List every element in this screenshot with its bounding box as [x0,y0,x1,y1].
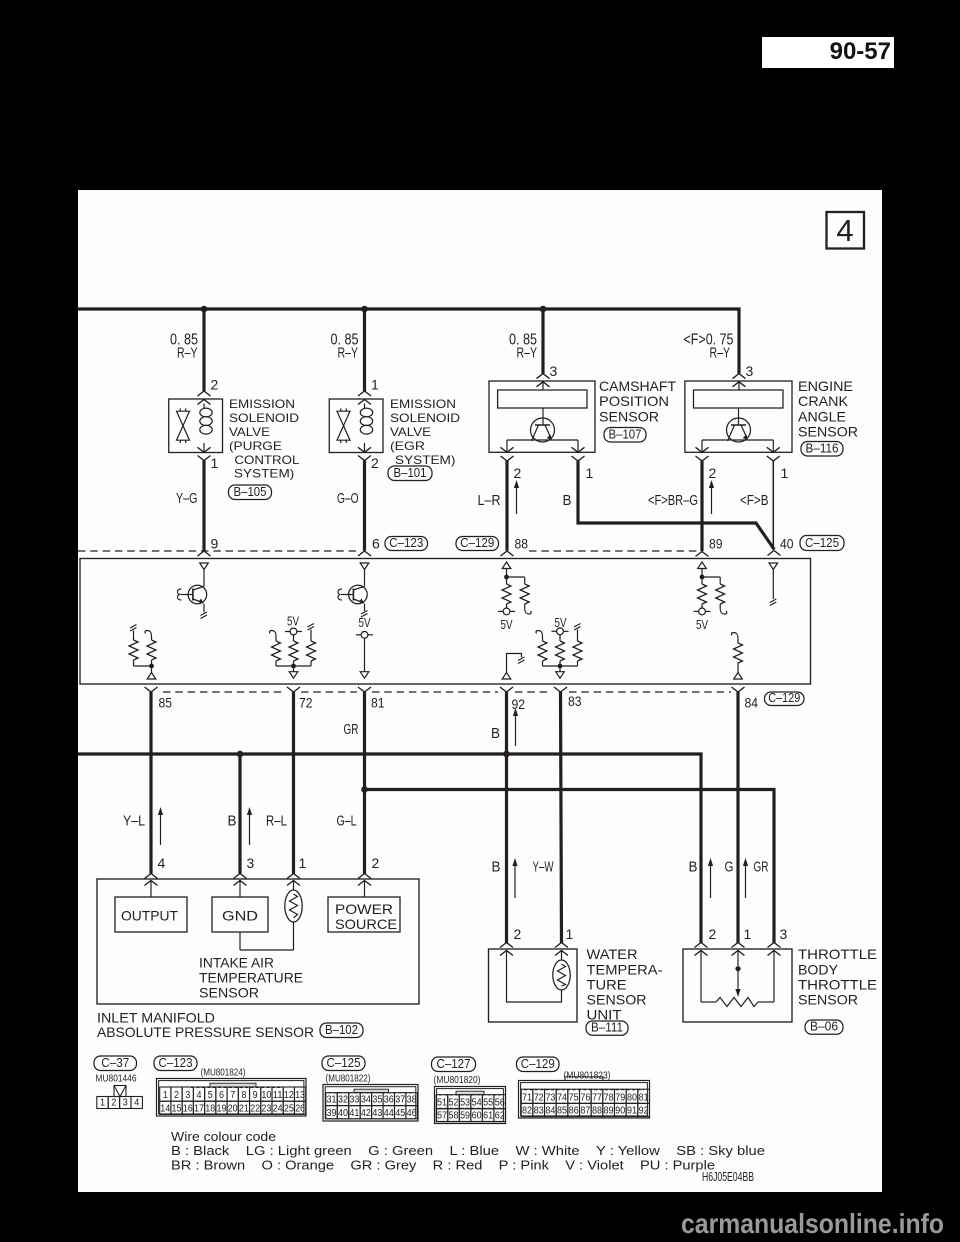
wire pin89 node [701,569,703,578]
svg-text:52: 52 [449,1098,459,1109]
svg-text:(MU801824): (MU801824) [201,1067,246,1078]
wire throttle pot left [700,951,702,1002]
connector C-37 pin row [97,1097,108,1109]
svg-text:EMISSION: EMISSION [229,397,295,411]
ground internal hash Q1 [201,612,208,619]
label box B-116 [801,442,843,457]
svg-text:L–R: L–R [478,492,501,509]
connector chevrons inlet pin 4 [145,874,158,879]
svg-text:SYSTEM): SYSTEM) [395,453,455,467]
arrow signal direction Y-L [160,814,162,845]
svg-text:73: 73 [545,1092,555,1103]
wire group2 bottom bus [543,665,578,667]
svg-text:6: 6 [372,536,380,552]
coil L purge solenoid [203,404,205,409]
svg-text:VALVE: VALVE [229,425,270,439]
svg-text:71: 71 [522,1092,532,1103]
svg-text:37: 37 [395,1095,405,1106]
wire resistor pair bottom [134,665,152,667]
wire to transistor Q1 [203,570,205,587]
svg-text:5V: 5V [696,618,709,632]
label box C-125 top [800,536,844,551]
svg-text:9: 9 [211,536,219,552]
svg-text:GR: GR [754,859,769,876]
wire junction to input triangle pin 85 [151,666,153,673]
connector C-123 label box [154,1056,197,1071]
node junction bus/branch2 [361,306,368,313]
port 5V supply pin89 [699,608,706,615]
watermark carmanualsonline.info [681,1208,944,1240]
svg-text:4: 4 [836,213,853,248]
connector chevrons throttle pin 2 [695,943,708,948]
svg-text:2: 2 [709,926,717,942]
ground internal hash Q2 [361,611,368,618]
connector C-127 body [435,1087,506,1124]
svg-text:42: 42 [361,1108,371,1119]
svg-text:20: 20 [228,1103,238,1114]
chevron pin 9 [198,551,211,556]
svg-text:91: 91 [627,1106,637,1117]
chevron pin 6 [358,551,371,556]
svg-text:59: 59 [460,1111,470,1122]
svg-text:H6J05E04BB: H6J05E04BB [702,1170,754,1184]
svg-text:89: 89 [604,1106,614,1117]
connector C-125 body [323,1085,418,1122]
node triangle input pin 84 [734,673,743,680]
node triangle output pin 83 [556,672,565,679]
node junction pin88 resistors [504,575,509,580]
node junction bus/branch1 [201,306,208,313]
node triangle input pin 88 [502,562,511,569]
svg-text:85: 85 [557,1106,567,1117]
resistor R5 group1 right [308,624,315,631]
wire to transistor Q2 [364,570,366,587]
svg-text:C–37: C–37 [101,1056,129,1070]
svg-text:3: 3 [746,363,754,379]
svg-text:(EGR: (EGR [390,439,425,453]
svg-text:POSITION: POSITION [599,393,669,409]
wire pin 83 Y-W to water temp pin 1 [561,692,562,944]
node junction bus/branch3 [540,306,547,313]
wire Q1 emitter to internal ground [203,604,205,613]
wire bus sensor ground [78,754,701,944]
svg-text:6: 6 [219,1090,224,1101]
node junction wiper [735,966,740,971]
port 5V supply group2 [557,628,564,635]
svg-text:(MU801820): (MU801820) [434,1075,481,1086]
resistor R3 group1 left [269,631,276,637]
svg-text:88: 88 [515,536,529,552]
svg-text:R–Y: R–Y [710,345,731,362]
svg-text:21: 21 [239,1103,249,1114]
label box B-101 [388,466,432,481]
svg-text:<F>B: <F>B [740,492,769,509]
throttle body throttle sensor B-06 box [683,949,792,1022]
wire pin40 to internal ground [772,570,774,600]
node triangle output pin 72 [289,672,298,679]
svg-text:GR: GR [344,721,359,738]
svg-text:MU801446: MU801446 [96,1074,137,1085]
svg-text:34: 34 [361,1095,371,1106]
white schematic page [78,190,882,1192]
engine crank angle sensor B-116 box [685,381,792,452]
svg-text:2: 2 [709,465,717,481]
svg-text:VALVE: VALVE [390,425,431,439]
svg-text:C–125: C–125 [327,1056,361,1070]
transistor crank angle sensor [727,418,751,442]
wire branch to emission purge solenoid pin 2 [202,309,205,391]
svg-text:81: 81 [371,695,385,711]
svg-text:1: 1 [566,926,574,942]
chevron pin 84 [732,687,745,692]
svg-text:2: 2 [514,465,522,481]
svg-text:15: 15 [172,1103,182,1114]
svg-text:23: 23 [261,1103,271,1114]
svg-text:39: 39 [327,1108,337,1119]
wire 5V port to output triangle pin 81 [364,638,366,672]
svg-text:84: 84 [745,695,759,711]
svg-text:17: 17 [194,1103,204,1114]
svg-text:Y–G: Y–G [176,490,198,507]
svg-text:62: 62 [495,1111,505,1122]
svg-text:26: 26 [295,1103,305,1114]
connector chevrons crank pin 1 [767,447,780,452]
svg-text:THROTTLE: THROTTLE [798,946,877,962]
svg-text:3: 3 [123,1098,128,1109]
svg-text:60: 60 [472,1111,482,1122]
svg-text:C–123: C–123 [389,536,423,550]
svg-text:B–101: B–101 [394,466,427,480]
svg-text:55: 55 [483,1098,493,1109]
label box B-105 [229,485,272,500]
svg-text:SENSOR: SENSOR [798,992,858,1008]
connector chevrons at EGR valve pin 1 [358,391,371,396]
wire EGR solenoid pin2 G-O [363,461,366,551]
svg-text:4: 4 [158,855,166,871]
label box B-06 [805,1020,843,1034]
svg-text:5V: 5V [359,616,372,630]
connector C-123 body [157,1079,307,1117]
resistor R4 group1 middle [293,635,295,641]
svg-text:92: 92 [639,1106,649,1117]
ground internal hash pin92 [518,657,525,664]
svg-text:79: 79 [615,1092,625,1103]
svg-text:85: 85 [159,695,173,711]
chevron pin 81 [358,687,371,692]
svg-text:C–129: C–129 [460,536,494,550]
svg-text:BR : Brown O : Orange GR: BR : Brown O : Orange GR : Grey R : Red … [171,1157,715,1172]
node junction group1 [291,664,296,669]
svg-text:56: 56 [495,1098,505,1109]
connector C-127 pins 57-62 [436,1109,448,1122]
svg-text:TEMPERATURE: TEMPERATURE [199,969,303,985]
svg-text:13: 13 [295,1090,305,1101]
svg-text:R–Y: R–Y [338,345,359,362]
node junction pin89 resistors [700,575,705,580]
svg-text:SOLENOID: SOLENOID [390,411,460,425]
connector C-129 pins 82-92 [521,1103,533,1116]
svg-text:51: 51 [437,1098,447,1109]
svg-text:B: B [563,492,572,509]
connector C-37 label box [94,1056,137,1071]
svg-text:SENSOR: SENSOR [587,992,647,1008]
svg-text:1: 1 [586,465,594,481]
wire junction to output triangle pin 72 [293,666,295,672]
svg-text:10: 10 [261,1090,271,1101]
svg-text:7: 7 [230,1090,235,1101]
svg-text:B: B [492,859,501,876]
wire pin 81 GR [363,692,366,874]
svg-text:1: 1 [211,455,219,471]
svg-text:C–125: C–125 [805,536,839,550]
resistor R8 pin89 left [701,577,703,584]
dashed connector line C-123/C-129/C-125 [78,550,359,552]
svg-text:ABSOLUTE PRESSURE SENSOR: ABSOLUTE PRESSURE SENSOR [97,1024,314,1040]
wire crank pin1 <F>B [772,461,774,549]
node triangle output pin 9 [200,563,209,570]
svg-text:Y–W: Y–W [533,859,555,876]
svg-text:44: 44 [384,1108,394,1119]
svg-text:61: 61 [483,1111,493,1122]
svg-text:B: B [689,859,698,876]
wire camshaft pin2 L-R [505,461,508,551]
resistor potentiometer track [701,1001,716,1003]
connector chevrons inlet pin 2 [358,874,371,879]
svg-text:SENSOR: SENSOR [599,408,659,424]
node triangle input pin 92 [502,673,511,680]
connector C-129 label box [517,1057,560,1072]
svg-text:OUTPUT: OUTPUT [121,908,178,924]
arrow signal direction BR-G [711,487,713,514]
connector chevrons camshaft pin 2 [501,447,514,452]
svg-text:75: 75 [569,1092,579,1103]
svg-text:9: 9 [253,1090,258,1101]
svg-text:SOLENOID: SOLENOID [229,411,299,425]
svg-text:Wire colour code: Wire colour code [171,1129,276,1144]
svg-text:G: G [725,859,734,876]
solenoid valve B-105 box [169,399,223,453]
svg-text:C–123: C–123 [159,1056,193,1070]
svg-text:54: 54 [472,1098,482,1109]
arrow signal direction L-R [516,487,518,514]
label box B-102 [320,1023,363,1038]
wire pin92 bracket [507,654,522,673]
coil L EGR solenoid [364,404,366,409]
wire pin88 node [506,569,508,578]
svg-text:83: 83 [534,1106,544,1117]
svg-text:90: 90 [615,1106,625,1117]
sheet number box 4 [827,212,865,249]
svg-text:2: 2 [111,1098,116,1109]
svg-text:3: 3 [185,1090,190,1101]
label box C-129 bottom [765,692,805,706]
connector C-125 pins 39-46 [326,1106,337,1119]
connector chevrons at crank sensor pin 3 [733,374,746,379]
connector C-125 pins 31-38 [326,1093,337,1106]
svg-text:B–111: B–111 [591,1021,623,1035]
svg-text:ENGINE: ENGINE [798,378,853,394]
wire pin 92 B to water temp pin 2 [505,692,508,944]
svg-text:78: 78 [604,1092,614,1103]
arrow signal direction GR throttle [745,865,747,898]
node junction GR/throttle bus [361,786,368,793]
svg-text:33: 33 [349,1095,359,1106]
wire pin 85 Y-L to inlet output [149,692,152,874]
wire crank sensor internal top [738,381,740,390]
connector chevrons water pin 2 [500,943,513,948]
svg-text:1: 1 [781,465,789,481]
svg-text:86: 86 [569,1106,579,1117]
svg-text:19: 19 [216,1103,226,1114]
svg-text:ANGLE: ANGLE [798,408,846,424]
svg-text:92: 92 [512,696,526,712]
wire water internal [507,951,562,1002]
wire purge solenoid pin1 Y-G [202,461,205,551]
svg-text:89: 89 [709,536,723,552]
svg-text:G–L: G–L [337,813,357,830]
svg-text:1: 1 [299,855,307,871]
water temperature sensor unit B-111 box [489,949,578,1022]
svg-text:INLET MANIFOLD: INLET MANIFOLD [97,1009,215,1025]
connector chevrons at camshaft sensor pin 3 [537,374,550,379]
arrow wiper [737,969,739,989]
resistor R10 group2 left [536,631,543,637]
GND block [212,897,268,932]
wire camshaft sensor internal top [542,381,544,390]
node triangle output pin 6 [360,563,369,570]
node junction group2 [558,664,563,669]
svg-text:5V: 5V [287,615,300,629]
svg-text:EMISSION: EMISSION [390,397,456,411]
svg-text:R–Y: R–Y [517,345,538,362]
svg-text:40: 40 [780,536,794,552]
svg-text:74: 74 [557,1092,567,1103]
svg-text:2: 2 [211,377,219,393]
arrow signal direction pin92 [515,715,517,746]
svg-text:C–129: C–129 [768,691,800,705]
svg-text:R–L: R–L [266,813,287,830]
OUTPUT block [115,897,187,932]
svg-text:B : Black LG : Light green: B : Black LG : Light green G : Green L :… [171,1143,765,1158]
svg-text:8: 8 [241,1090,246,1101]
wire group1 bottom bus [276,665,311,667]
chevron pin 92 [500,687,513,692]
wire main 0.85 R-Y power bus [78,309,739,374]
node junction resistor pair [149,664,154,669]
svg-text:<F>BR–G: <F>BR–G [648,492,698,509]
solenoid valve B-101 box [329,399,383,453]
wire crank sensor internal bottom [702,439,773,441]
connector chevrons EGR valve pin 2 [358,447,371,452]
svg-text:77: 77 [592,1092,602,1103]
svg-text:81: 81 [639,1092,649,1103]
svg-text:THROTTLE: THROTTLE [798,976,877,992]
dashed connector line C-129 bottom [163,691,286,693]
wire pin 84 G to throttle pin 1 [736,692,739,944]
camshaft sensor inner element [498,390,587,408]
resistor R11 group2 middle [559,635,561,641]
svg-text:76: 76 [580,1092,590,1103]
wire inlet output lead [150,881,152,897]
chevron pin 83 [554,687,567,692]
svg-text:TEMPERA-: TEMPERA- [587,961,663,977]
svg-text:88: 88 [592,1106,602,1117]
node triangle input pin 89 [698,562,707,569]
svg-text:TURE: TURE [587,976,627,992]
wire crank pin2 <F>BR-G [700,461,703,551]
connector C-129 body [519,1081,650,1119]
svg-text:1: 1 [163,1090,168,1101]
port 5V supply pin88 [503,608,510,615]
svg-text:SYSTEM): SYSTEM) [234,467,294,481]
svg-text:3: 3 [780,926,788,942]
page header number 90-57 [762,37,894,68]
svg-text:B: B [228,813,237,830]
resistor R13 pin84 [731,633,738,639]
svg-text:82: 82 [522,1106,532,1117]
svg-text:84: 84 [545,1106,555,1117]
wire branch to camshaft position sensor pin 3 [541,309,544,374]
resistor R6 pin88 left [506,577,508,584]
node junction bus/inlet GND [237,751,244,758]
svg-text:83: 83 [568,693,582,709]
svg-text:46: 46 [407,1108,417,1119]
connector C-125 label box [322,1056,365,1071]
valve symbol EGR solenoid [337,411,350,426]
wire branch to emission EGR solenoid pin 1 [363,309,366,391]
svg-text:31: 31 [327,1095,337,1106]
svg-text:BODY: BODY [798,961,839,977]
svg-text:CONTROL: CONTROL [234,453,299,467]
svg-text:B–06: B–06 [810,1020,838,1034]
svg-text:B–116: B–116 [806,441,839,455]
svg-text:16: 16 [183,1103,193,1114]
chevron pin 88 [501,551,514,556]
svg-text:SOURCE: SOURCE [335,916,397,932]
svg-text:INTAKE AIR: INTAKE AIR [199,954,274,970]
svg-text:C–129: C–129 [521,1057,555,1071]
svg-text:38: 38 [407,1095,417,1106]
svg-text:35: 35 [372,1095,382,1106]
resistor R7 pin88 right [507,576,525,578]
connector chevrons water pin 1 [555,943,568,948]
chevron pin 72 [287,687,300,692]
svg-text:40: 40 [338,1108,348,1119]
wire inlet GND branch [238,754,241,874]
svg-text:4: 4 [197,1090,202,1101]
svg-text:SENSOR: SENSOR [199,985,259,1001]
transistor Q2 ECU driver [349,585,368,604]
label box B-111 [586,1021,628,1035]
transistor Q1 ECU driver [188,585,207,604]
ECU box [80,559,811,685]
wire bus GR to throttle pin 3 [365,790,775,944]
svg-text:GND: GND [222,908,258,924]
thermistor intake air temperature [285,890,302,922]
wire pin 72 R-L to inlet [292,692,295,874]
svg-text:1: 1 [371,377,379,393]
connector C-123 pins 14-26 [160,1101,171,1114]
connector chevrons throttle pin 1 [732,943,745,948]
thermistor water temperature [553,960,570,990]
svg-text:41: 41 [349,1108,359,1119]
resistor R9 pin89 right [702,576,720,578]
transistor camshaft sensor [531,418,555,442]
svg-text:80: 80 [627,1092,637,1103]
connector C-127 label box [432,1057,476,1072]
arrow signal direction B inlet [249,814,251,845]
POWER SOURCE block [328,897,400,932]
